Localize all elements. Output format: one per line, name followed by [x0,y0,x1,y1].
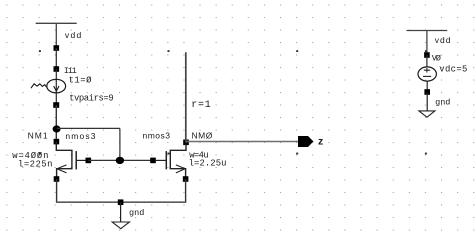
svg-text:tvpairs=9: tvpairs=9 [69,94,113,104]
ground symbol left [112,199,129,228]
ground symbol right [419,92,435,117]
vdd symbol right [407,31,448,56]
major grid dark dots [39,50,427,154]
wire drain NM0 up (net r) [185,52,187,142]
svg-text:r=1: r=1 [191,100,211,111]
wire source NM0 to rail [185,179,187,202]
svg-text:VØ: VØ [432,54,441,64]
wire diode connection horizontal [57,127,120,129]
junction node drain NM1 [53,125,61,132]
wire source NM1 to rail [56,179,58,202]
vdd symbol left [36,23,77,48]
wire gate NM1 to gate NM0 [88,159,153,161]
svg-text:nmos3: nmos3 [143,131,171,141]
svg-text:nmos3: nmos3 [65,131,96,141]
output pin z [298,136,313,147]
wire ground rail [56,201,186,203]
svg-text:l=2.25u: l=2.25u [189,158,227,168]
wire vdd to I11 [55,48,57,69]
svg-text:gnd: gnd [435,98,450,108]
svg-text:vdc=5: vdc=5 [439,64,467,74]
wire I11 to NM1 drain [55,105,57,142]
svg-text:NM1: NM1 [28,131,49,141]
svg-text:t1=Ø: t1=Ø [69,75,92,85]
svg-text:z: z [318,136,323,148]
svg-text:vdd: vdd [435,35,452,45]
svg-text:l=225n: l=225n [18,159,53,169]
svg-text:vdd: vdd [65,30,83,40]
voltage source V0 [418,52,436,95]
nmos NM1 [54,139,92,182]
wire diode connection vertical [119,128,121,160]
nmos NM0 [150,140,189,182]
wire drain NM0 to output z [186,141,299,143]
svg-text:gnd: gnd [129,208,144,218]
svg-text:NMØ: NMØ [192,131,213,141]
junction node gate [116,157,124,164]
pin square vdd left [54,45,60,51]
current source I11 [31,66,66,108]
